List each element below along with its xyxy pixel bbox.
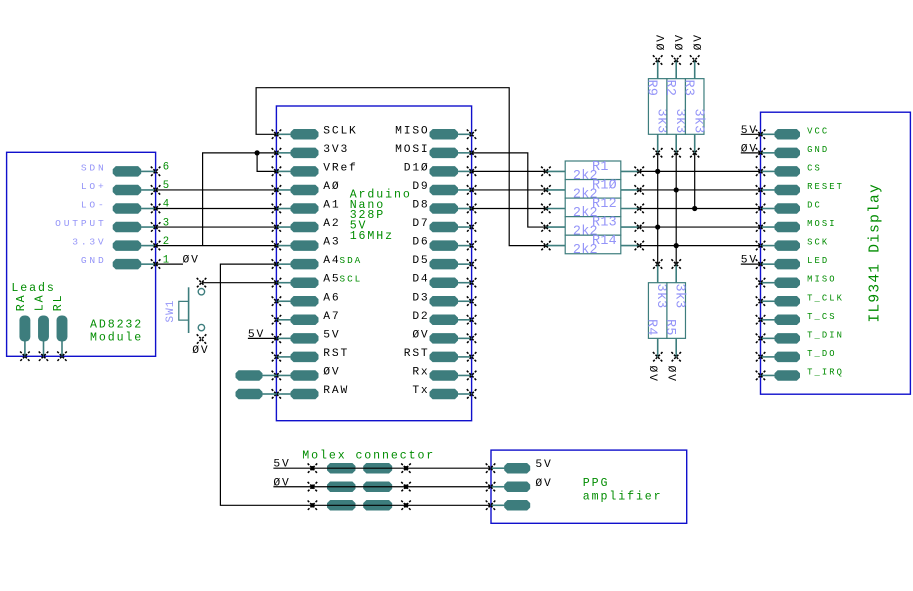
wire LO- to A1 xyxy=(156,208,277,210)
wire Molex row 3 to PPG amplifier xyxy=(312,504,490,506)
svg-text:MISO: MISO xyxy=(807,275,837,285)
switch SW1 xyxy=(179,278,207,344)
svg-text:LA: LA xyxy=(34,293,47,311)
AD8232 pin 2 (3.3V): pad, stub, X, label xyxy=(72,237,160,251)
wire R14 to display SCK xyxy=(639,245,760,247)
resistor R9 body (vertical) xyxy=(648,79,667,135)
resistor R4 body (vertical) xyxy=(648,283,667,339)
display pin DC: pad, stub, X, label xyxy=(756,201,822,214)
svg-text:5V: 5V xyxy=(273,459,290,471)
svg-text:RESET: RESET xyxy=(807,182,844,192)
svg-text:A3: A3 xyxy=(323,237,340,249)
svg-text:T_CS: T_CS xyxy=(807,312,837,322)
resistor R12 body xyxy=(565,198,621,217)
svg-text:A7: A7 xyxy=(323,311,340,323)
svg-text:SDA: SDA xyxy=(340,255,363,266)
svg-text:SCLK: SCLK xyxy=(323,125,357,137)
Arduino right pin D6: pad, stub, X, label xyxy=(412,237,476,251)
svg-text:Rx: Rx xyxy=(412,366,429,378)
svg-text:ØV: ØV xyxy=(535,478,552,490)
AD8232 lead pad LA with stub and X xyxy=(38,316,49,362)
wire 3V3 row to left bus xyxy=(203,153,277,246)
svg-text:ØV: ØV xyxy=(192,345,209,357)
Arduino left pin SCLK: pad, stub, X, label xyxy=(272,125,358,139)
Arduino right pin D4: pad, stub, X, label xyxy=(412,274,476,288)
svg-text:RST: RST xyxy=(404,348,430,360)
Arduino external power pad at 0V pin xyxy=(236,371,276,381)
Arduino left pin A3: pad, stub, X, label xyxy=(272,237,341,251)
AD8232 pin 6 (SDN): pad, stub, X, label xyxy=(81,162,161,176)
display pin T_CS: pad, stub, X, label xyxy=(756,312,837,325)
Arduino Nano description text xyxy=(350,189,412,243)
resistor R1 body xyxy=(565,161,621,180)
svg-text:MISO: MISO xyxy=(395,125,429,137)
svg-text:LO-: LO- xyxy=(81,200,107,211)
svg-text:5V: 5V xyxy=(741,255,758,267)
Arduino left pin 5V: pad, stub, X, label xyxy=(272,329,341,343)
display pin T_DIN: pad, stub, X, label xyxy=(756,330,844,343)
svg-text:A1: A1 xyxy=(323,200,340,212)
svg-text:D2: D2 xyxy=(412,311,429,323)
svg-text:D4: D4 xyxy=(412,274,429,286)
resistor R10 pins: stubs and X marks xyxy=(541,185,644,195)
wire D9 to R10 xyxy=(472,189,546,191)
svg-text:Module: Module xyxy=(90,331,143,344)
junction dots at Molex row 2 pins xyxy=(310,485,408,489)
svg-text:SCL: SCL xyxy=(340,274,363,285)
svg-text:D3: D3 xyxy=(412,292,429,304)
svg-text:5V: 5V xyxy=(535,459,552,471)
svg-text:amplifier: amplifier xyxy=(583,490,663,503)
net label 5V at display LED xyxy=(741,255,761,267)
net label 0V at display GND xyxy=(741,143,761,155)
PPG amplifier box outline xyxy=(491,450,687,523)
svg-text:D5: D5 xyxy=(412,255,429,267)
svg-text:LED: LED xyxy=(807,256,829,266)
svg-text:ØV: ØV xyxy=(665,366,677,383)
IL9341 Display box outline xyxy=(761,112,911,394)
AD8232 lead pad RA with stub and X xyxy=(19,316,30,362)
Molex connector row 2 pads xyxy=(328,482,392,492)
resistor R12 pins: stubs and X marks xyxy=(541,204,644,214)
svg-text:R5: R5 xyxy=(662,319,677,336)
svg-text:ØV: ØV xyxy=(273,477,290,489)
svg-text:R3: R3 xyxy=(680,80,695,97)
svg-text:RST: RST xyxy=(323,348,349,360)
Arduino left pin RAW: pad, stub, X, label xyxy=(272,385,349,399)
Arduino left pin A1: pad, stub, X, label xyxy=(272,200,341,214)
Arduino right pin D3: pad, stub, X, label xyxy=(412,292,476,306)
svg-text:R2: R2 xyxy=(662,80,677,97)
svg-text:ØV: ØV xyxy=(183,255,200,267)
wire OUTPUT to A2 xyxy=(156,226,277,228)
wire R1 to display CS xyxy=(639,170,760,172)
svg-text:6: 6 xyxy=(163,162,169,174)
Arduino right pin D9: pad, stub, X, label xyxy=(412,181,476,195)
svg-text:T_DIN: T_DIN xyxy=(807,330,844,340)
Arduino left pin VRef: pad, stub, X, label xyxy=(272,162,358,176)
Arduino left pin A7: pad, stub, X, label xyxy=(272,311,341,325)
svg-text:D8: D8 xyxy=(412,200,429,212)
wire jog 3V3 to VRef xyxy=(257,153,276,172)
svg-text:ØV: ØV xyxy=(646,366,658,383)
display pin CS: pad, stub, X, label xyxy=(756,163,822,176)
junction dot RESET/R2 xyxy=(674,187,679,192)
Arduino left pin A6: pad, stub, X, label xyxy=(272,292,341,306)
svg-text:T_CLK: T_CLK xyxy=(807,293,844,303)
resistor R4 pins: stubs and X marks xyxy=(653,259,663,361)
svg-text:D6: D6 xyxy=(412,237,429,249)
svg-text:ØV: ØV xyxy=(693,33,705,50)
AD8232 pin 5 (LO+): pad, stub, X, label xyxy=(81,181,161,195)
Arduino right pin RST: pad, stub, X, label xyxy=(404,348,477,362)
AD8232 pin 3 (OUTPUT): pad, stub, X, label xyxy=(55,218,160,232)
wire A5 to switch SW1 xyxy=(202,282,277,284)
Arduino right pin 0V: pad, stub, X, label xyxy=(412,329,476,343)
Arduino right pin D2: pad, stub, X, label xyxy=(412,311,476,325)
svg-text:A5: A5 xyxy=(323,274,340,286)
svg-text:ØV: ØV xyxy=(675,33,687,50)
AD8232 pin 4 (LO-): pad, stub, X, label xyxy=(81,200,161,214)
AD8232 lead pad RL with stub and X xyxy=(57,316,68,362)
junction dot MOSI/R9 xyxy=(655,224,660,229)
Arduino left pin A0: pad, stub, X, label xyxy=(272,181,341,195)
display pin SCK: pad, stub, X, label xyxy=(756,238,830,251)
Arduino Nano U1 box outline xyxy=(276,106,471,421)
junction dot DC/R3 xyxy=(692,206,697,211)
svg-text:DC: DC xyxy=(807,201,822,211)
wire SCLK loop to R14 (over the top) xyxy=(256,88,546,246)
svg-text:OUTPUT: OUTPUT xyxy=(55,218,106,229)
svg-text:A6: A6 xyxy=(323,292,340,304)
junction dots at Molex row 1 pins xyxy=(310,466,408,470)
resistor R13 body xyxy=(565,217,621,236)
Arduino left pin A5: pad, stub, X, label xyxy=(272,274,341,288)
Arduino right pin MISO: pad, stub, X, label xyxy=(395,125,476,139)
Molex connector row 1 pads xyxy=(328,463,392,473)
wire vertical R3 column to DC row xyxy=(694,153,696,209)
svg-text:RL: RL xyxy=(52,293,65,311)
wire Molex row 1 from label to PPG amplifier xyxy=(273,467,490,469)
svg-text:3k3: 3k3 xyxy=(654,109,669,134)
net label 5V at Arduino 5V pin xyxy=(248,329,277,341)
svg-text:GND: GND xyxy=(807,145,829,155)
resistor R13 pins: stubs and X marks xyxy=(541,222,644,232)
svg-text:Tx: Tx xyxy=(412,385,429,397)
resistor R10 body xyxy=(565,180,621,199)
svg-text:RAW: RAW xyxy=(323,385,349,397)
Arduino left pin A2: pad, stub, X, label xyxy=(272,218,341,232)
svg-text:D1Ø: D1Ø xyxy=(404,162,430,174)
X marks at Molex row 2 xyxy=(308,482,411,492)
display pin MISO: pad, stub, X, label xyxy=(756,275,837,288)
svg-text:3.3V: 3.3V xyxy=(72,237,106,248)
display pin T_DO: pad, stub, X, label xyxy=(756,349,837,362)
svg-text:A2: A2 xyxy=(323,218,340,230)
Molex connector row 3 pads xyxy=(328,501,392,511)
svg-text:MOSI: MOSI xyxy=(807,219,837,229)
Arduino right pin D10: pad, stub, X, label xyxy=(404,162,477,176)
display pin RESET: pad, stub, X, label xyxy=(756,182,844,195)
svg-text:2k2: 2k2 xyxy=(573,243,598,258)
AD8232 Module name text xyxy=(90,319,143,345)
PPG amplifier pin 3: pad, stub, X xyxy=(486,501,530,511)
Arduino left pin RST: pad, stub, X, label xyxy=(272,348,349,362)
Arduino right pin D8: pad, stub, X, label xyxy=(412,200,476,214)
svg-text:5V: 5V xyxy=(248,329,265,341)
svg-text:16MHz: 16MHz xyxy=(350,230,394,243)
X marks at Molex row 1 xyxy=(308,463,411,473)
resistor R5 body (vertical) xyxy=(667,283,686,339)
svg-text:LO+: LO+ xyxy=(81,181,107,192)
resistor R2 pins: stubs and X marks xyxy=(671,55,681,157)
Arduino right pin Tx: pad, stub, X, label xyxy=(412,385,476,399)
svg-text:R9: R9 xyxy=(643,80,658,97)
svg-text:3k3: 3k3 xyxy=(653,284,668,309)
svg-text:3k3: 3k3 xyxy=(691,109,706,134)
wire D8 to R12 xyxy=(472,208,546,210)
svg-text:GND: GND xyxy=(81,255,107,266)
svg-text:VRef: VRef xyxy=(323,162,357,174)
wire vertical R9 column (CS/MOSI pullup chain) xyxy=(657,153,659,264)
display pin LED: pad, stub, X, label xyxy=(756,256,830,269)
net label 5V at display VCC xyxy=(741,125,761,137)
svg-text:T_IRQ: T_IRQ xyxy=(807,367,844,377)
Arduino left pin A4: pad, stub, X, label xyxy=(272,255,341,269)
svg-text:ØV: ØV xyxy=(323,366,340,378)
svg-text:T_DO: T_DO xyxy=(807,349,837,359)
svg-text:SCK: SCK xyxy=(807,238,829,248)
wire MOSI to R13 xyxy=(472,153,546,227)
resistor R14 pins: stubs and X marks xyxy=(541,241,644,251)
Arduino left pin 0V: pad, stub, X, label xyxy=(272,366,341,380)
resistor R1 pins: stubs and X marks xyxy=(541,167,644,177)
PPG amplifier pin 1: pad, stub, X xyxy=(486,463,530,473)
svg-text:AØ: AØ xyxy=(323,181,340,193)
AD8232 pin 1 (GND): pad, stub, X, label xyxy=(81,255,161,269)
svg-text:5V: 5V xyxy=(741,125,758,137)
svg-text:A4: A4 xyxy=(323,255,340,267)
wire vertical R2 column (RESET/SCK chain) xyxy=(675,153,677,264)
svg-text:Molex connector: Molex connector xyxy=(302,450,435,463)
wire D10 to R1 xyxy=(472,170,546,172)
wire R13 to display MOSI xyxy=(639,226,760,228)
svg-text:CS: CS xyxy=(807,163,822,173)
svg-text:D9: D9 xyxy=(412,181,429,193)
svg-text:IL9341 Display: IL9341 Display xyxy=(867,183,883,322)
wire AD8232 3.3V row to Arduino A3 xyxy=(156,245,277,247)
resistor R9 pins: stubs and X marks xyxy=(653,55,663,157)
junction dots at Molex row 3 pins xyxy=(310,503,408,507)
svg-text:D7: D7 xyxy=(412,218,429,230)
display pin T_IRQ: pad, stub, X, label xyxy=(756,367,844,380)
display pin GND: pad, stub, X, label xyxy=(756,145,830,158)
Arduino right pin MOSI: pad, stub, X, label xyxy=(395,144,476,158)
display pin MOSI: pad, stub, X, label xyxy=(756,219,837,232)
wire A4 to Molex connector row 3 xyxy=(220,264,312,505)
svg-text:3k3: 3k3 xyxy=(672,109,687,134)
svg-text:SDN: SDN xyxy=(81,162,107,173)
junction dot SCK/R2 xyxy=(674,243,679,248)
svg-text:ØV: ØV xyxy=(656,33,668,50)
resistor R3 body (vertical) xyxy=(685,79,704,135)
Arduino right pin Rx: pad, stub, X, label xyxy=(412,366,476,380)
Arduino external power pad at RAW pin xyxy=(236,389,276,399)
svg-text:PPG: PPG xyxy=(583,477,610,490)
svg-text:SW1: SW1 xyxy=(165,300,177,323)
resistor R5 pins: stubs and X marks xyxy=(671,259,681,361)
wire R12 to display DC xyxy=(639,208,760,210)
PPG amplifier pin 2: pad, stub, X xyxy=(486,482,530,492)
Arduino right pin D7: pad, stub, X, label xyxy=(412,218,476,232)
X marks at Molex row 3 xyxy=(308,501,411,511)
svg-text:5V: 5V xyxy=(323,329,340,341)
display pin VCC: pad, stub, X, label xyxy=(756,126,830,139)
PPG amplifier name text xyxy=(583,477,663,504)
AD8232 Module box outline xyxy=(7,152,156,356)
junction dot CS/R9 xyxy=(655,169,660,174)
Arduino left pin 3V3: pad, stub, X, label xyxy=(272,144,349,158)
svg-text:ØV: ØV xyxy=(741,143,758,155)
svg-text:MOSI: MOSI xyxy=(395,144,429,156)
resistor R14 body xyxy=(565,235,621,254)
junction dot 3V3/VRef xyxy=(255,150,260,155)
svg-text:R4: R4 xyxy=(644,319,659,336)
wire R10 to display RESET xyxy=(639,189,760,191)
svg-text:3k3: 3k3 xyxy=(672,284,687,309)
svg-text:Leads: Leads xyxy=(11,282,55,295)
Arduino right pin D5: pad, stub, X, label xyxy=(412,255,476,269)
wire stub GND pin to 0V net label xyxy=(156,263,183,265)
resistor R2 body (vertical) xyxy=(667,79,686,135)
resistor R3 pins: stubs and X marks xyxy=(690,55,700,157)
display pin T_CLK: pad, stub, X, label xyxy=(756,293,844,306)
svg-text:RA: RA xyxy=(15,293,28,311)
wire LO+ to A0 xyxy=(156,189,277,191)
wire Molex row 2 from label to PPG amplifier xyxy=(273,486,490,488)
svg-text:ØV: ØV xyxy=(412,329,429,341)
svg-text:AD8232: AD8232 xyxy=(90,319,143,332)
svg-text:VCC: VCC xyxy=(807,126,829,136)
svg-text:3V3: 3V3 xyxy=(323,144,349,156)
